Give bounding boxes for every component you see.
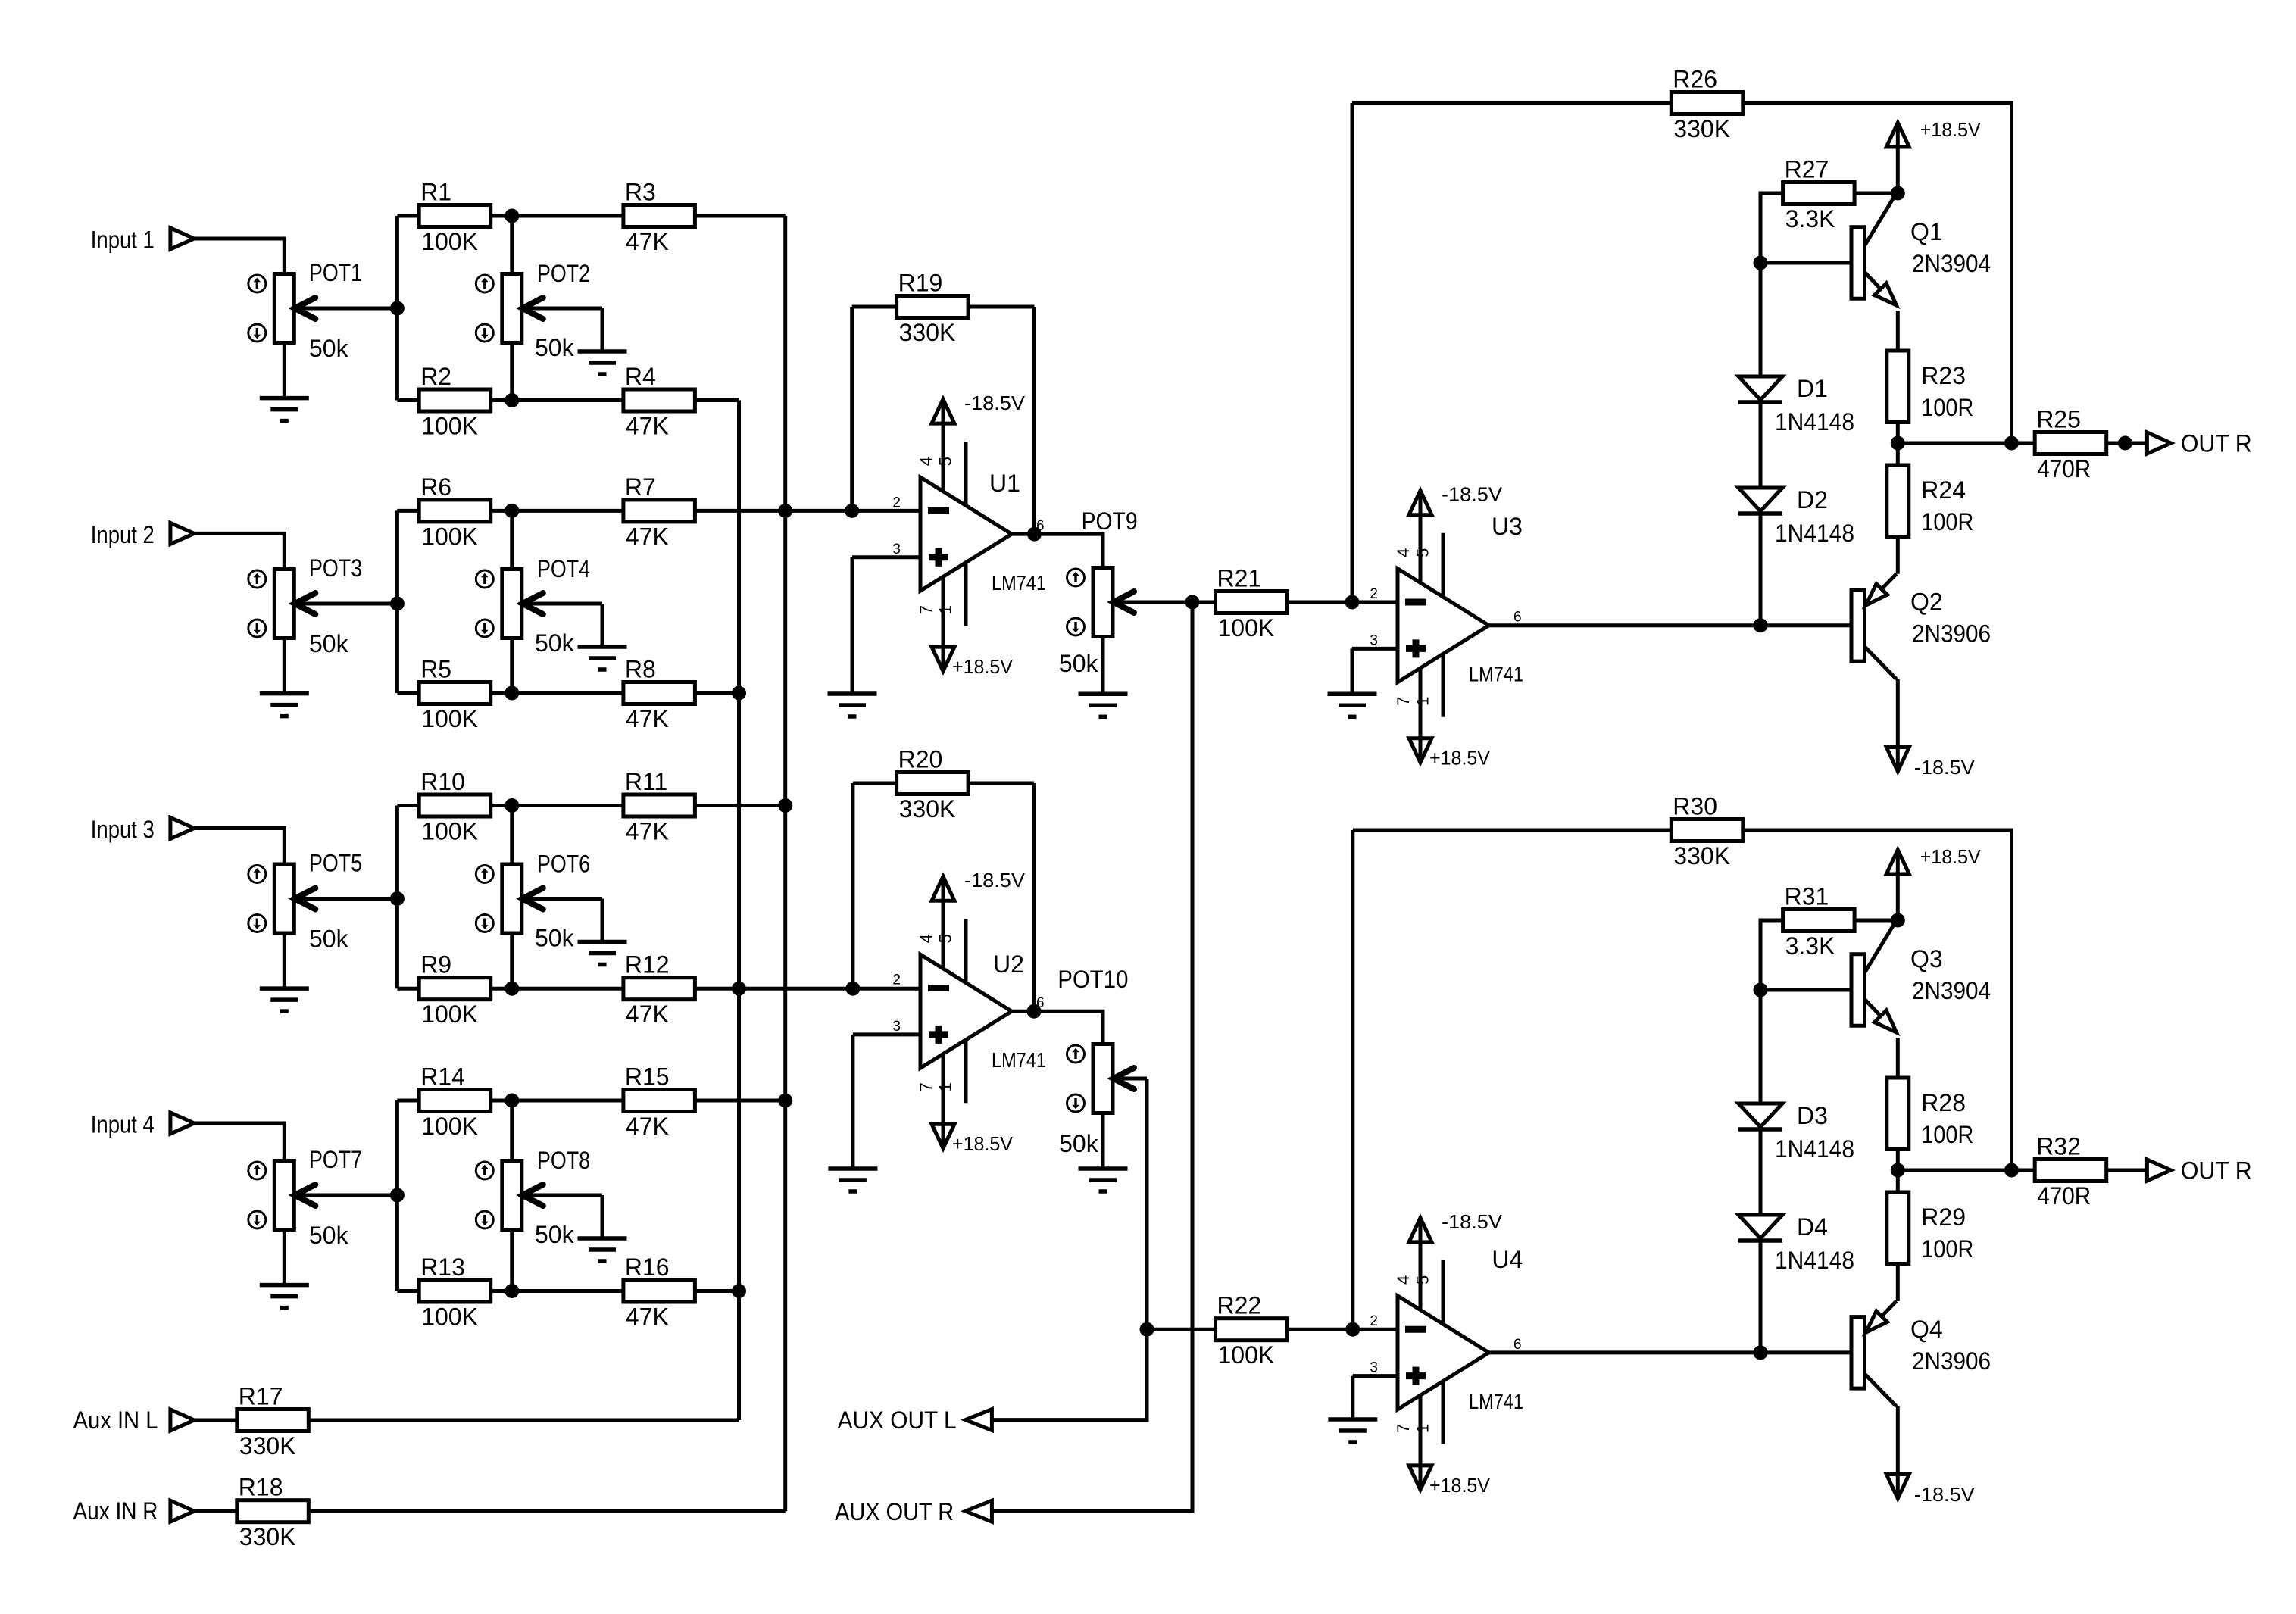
diode D4 1N4148	[1738, 1213, 1854, 1274]
wire Input 3 to POT5	[194, 829, 284, 865]
wire Q1 base	[1760, 261, 1851, 265]
svg-text:R8: R8	[625, 656, 656, 683]
svg-text:100K: 100K	[1218, 1341, 1275, 1369]
svg-text:R31: R31	[1785, 883, 1829, 910]
potentiometer POT7 50k	[248, 1146, 398, 1249]
svg-text:LM741: LM741	[992, 571, 1046, 595]
power +18.5V	[1886, 845, 1981, 874]
potentiometer POT10 50k	[1057, 966, 1147, 1157]
resistor R20 330K	[853, 746, 1034, 823]
svg-text:LM741: LM741	[1469, 663, 1523, 686]
wire POT6 column	[510, 806, 514, 865]
svg-text:2: 2	[1370, 1313, 1378, 1329]
svg-text:100K: 100K	[421, 818, 478, 845]
svg-text:330K: 330K	[899, 319, 956, 346]
svg-text:POT8: POT8	[537, 1147, 590, 1174]
resistor R4 47K	[512, 363, 739, 440]
wire POT9 bottom to ground	[1101, 637, 1105, 695]
svg-text:50k: 50k	[1059, 1130, 1099, 1157]
svg-text:7: 7	[1394, 697, 1413, 706]
wire Q1 emitter to R23	[1896, 311, 1900, 351]
potentiometer POT9 50k	[1059, 507, 1192, 677]
svg-text:50k: 50k	[535, 334, 575, 361]
svg-text:2N3906: 2N3906	[1912, 620, 1991, 648]
svg-text:POT4: POT4	[537, 555, 590, 582]
potentiometer POT3 50k	[248, 554, 398, 657]
svg-text:Q2: Q2	[1910, 588, 1943, 616]
svg-text:R25: R25	[2036, 406, 2081, 433]
svg-text:4: 4	[1394, 1275, 1413, 1285]
svg-text:+18.5V: +18.5V	[952, 655, 1014, 678]
wire POT4 wiper to ground	[601, 604, 604, 647]
wire POT4 column	[510, 510, 514, 569]
svg-text:100R: 100R	[1921, 394, 1973, 421]
resistor R13 100K	[397, 1253, 519, 1331]
potentiometer POT8 50k	[476, 1147, 602, 1248]
svg-text:330K: 330K	[239, 1432, 296, 1459]
svg-text:R32: R32	[2036, 1133, 2081, 1160]
wire R30 feedback top rail	[1351, 830, 1354, 1329]
wire POT8 column	[510, 1100, 514, 1161]
node bus B R11	[778, 798, 792, 813]
svg-text:1N4148: 1N4148	[1775, 408, 1854, 435]
input port Input 2	[91, 521, 194, 548]
node U2 pin2 feedback junction	[845, 982, 860, 996]
potentiometer POT6 50k	[476, 851, 602, 952]
svg-text:5: 5	[936, 457, 955, 466]
input port Aux IN L	[73, 1406, 195, 1434]
wire +18.5V to Q3 collector	[1896, 874, 1900, 920]
svg-text:-18.5V: -18.5V	[964, 869, 1026, 891]
resistor R15 47K	[512, 1063, 786, 1141]
wire Aux IN L row	[194, 1419, 237, 1422]
svg-text:R20: R20	[898, 746, 943, 773]
node Q3 base junction	[1754, 983, 1768, 997]
wire Input 4 to POT7	[194, 1123, 284, 1161]
svg-text:5: 5	[1414, 1275, 1432, 1285]
svg-text:2: 2	[892, 972, 901, 988]
svg-text:1N4148: 1N4148	[1775, 1135, 1854, 1163]
svg-text:-18.5V: -18.5V	[964, 392, 1026, 414]
svg-text:470R: 470R	[2037, 455, 2091, 482]
svg-text:R16: R16	[625, 1253, 670, 1281]
svg-text:3: 3	[1370, 632, 1378, 648]
svg-text:POT3: POT3	[309, 554, 362, 582]
power +18.5V	[1409, 1466, 1491, 1497]
svg-text:D4: D4	[1797, 1213, 1828, 1241]
wire U4 pin3 to ground	[1353, 1374, 1398, 1378]
wire Q4 collector to -18.5V	[1896, 1406, 1900, 1474]
resistor R12 47K	[512, 951, 739, 1029]
transistor Q1 2N3904	[1851, 193, 1991, 305]
svg-text:3: 3	[892, 1019, 901, 1035]
svg-text:AUX OUT R: AUX OUT R	[835, 1498, 954, 1525]
node R30 to output junction	[2004, 1163, 2019, 1178]
svg-text:+18.5V: +18.5V	[1429, 747, 1491, 770]
svg-text:LM741: LM741	[1469, 1390, 1523, 1413]
svg-text:LM741: LM741	[992, 1048, 1046, 1072]
svg-text:+18.5V: +18.5V	[1920, 118, 1982, 141]
input port Input 3	[91, 816, 194, 843]
transistor Q3 2N3904	[1851, 920, 1991, 1032]
resistor R14 100K	[397, 1063, 519, 1141]
wire U1 pin3 to ground	[852, 555, 920, 559]
wire output row to R32	[1898, 1169, 2035, 1172]
node R10 right junction	[504, 798, 519, 813]
svg-text:R21: R21	[1217, 565, 1262, 592]
svg-text:R27: R27	[1785, 156, 1829, 183]
resistor R2 100K	[397, 363, 519, 440]
node bus A R12 / U2 pin2	[732, 982, 746, 996]
wire +18.5V to Q1 collector	[1896, 147, 1900, 193]
node POT7 wiper junction	[390, 1188, 405, 1203]
svg-text:Aux IN R: Aux IN R	[73, 1497, 158, 1525]
output port OUT R	[2147, 1157, 2251, 1185]
svg-text:D1: D1	[1797, 375, 1828, 402]
wire Q3 base	[1760, 988, 1851, 992]
wire POT9 wiper row to U3	[1192, 601, 1216, 604]
svg-text:Aux IN L: Aux IN L	[73, 1406, 158, 1434]
wire POT10 wiper to R22 and AUX OUT L	[992, 1079, 1147, 1420]
svg-text:R12: R12	[625, 951, 670, 979]
svg-text:R13: R13	[420, 1253, 465, 1281]
svg-text:50k: 50k	[309, 1222, 349, 1249]
resistor R25 470R	[2035, 406, 2147, 483]
svg-text:100K: 100K	[421, 523, 478, 550]
svg-text:1N4148: 1N4148	[1775, 1247, 1854, 1274]
wire R31 row	[1760, 920, 1783, 990]
node diode chain to base row	[1754, 618, 1768, 632]
resistor R23 100R	[1887, 351, 1974, 423]
diode chain wire	[1759, 263, 1763, 376]
svg-text:4: 4	[917, 457, 936, 466]
svg-text:R17: R17	[239, 1383, 283, 1410]
svg-text:7: 7	[917, 1082, 936, 1091]
wire U1 inverting input row	[786, 509, 920, 513]
svg-text:2N3904: 2N3904	[1912, 977, 1991, 1004]
resistor R7 47K	[512, 473, 786, 551]
svg-text:U4: U4	[1492, 1246, 1523, 1273]
op-amp U1 LM741	[892, 423, 1046, 647]
ground	[1328, 1419, 1377, 1442]
wire left bus Input 3	[395, 806, 399, 989]
potentiometer POT1 50k	[248, 259, 398, 362]
wire U1 output to POT9	[1012, 534, 1104, 567]
wire Q2 collector to -18.5V	[1896, 679, 1900, 747]
wire U3 pin3 to ground	[1352, 647, 1398, 651]
wire U2 pin3 to ground	[853, 1032, 920, 1036]
node R14 right junction	[504, 1094, 519, 1108]
svg-text:330K: 330K	[1673, 842, 1730, 869]
wire R20 feedback loop	[851, 783, 854, 988]
resistor R16 47K	[512, 1253, 739, 1331]
svg-text:3.3K: 3.3K	[1785, 932, 1835, 960]
wire R24 to Q2 emitter	[1896, 539, 1900, 574]
svg-text:R11: R11	[625, 768, 667, 795]
resistor R5 100K	[397, 656, 519, 733]
svg-text:50k: 50k	[535, 1221, 575, 1248]
node U1 pin2 feedback junction	[845, 504, 859, 518]
svg-text:-18.5V: -18.5V	[1914, 756, 1976, 779]
resistor R26 330K	[1671, 66, 1743, 143]
svg-text:R29: R29	[1921, 1203, 1966, 1231]
node bus B R15	[778, 1094, 792, 1108]
resistor R24 100R	[1887, 465, 1974, 537]
resistor R10 100K	[397, 768, 519, 845]
svg-text:D2: D2	[1797, 486, 1828, 514]
svg-text:R2: R2	[420, 363, 451, 390]
svg-text:100K: 100K	[421, 705, 478, 732]
wire bus right-mix (R3 R7 R11 R15 to R18)	[783, 216, 787, 1511]
svg-text:R15: R15	[625, 1063, 670, 1091]
svg-text:R7: R7	[625, 473, 656, 501]
svg-text:47K: 47K	[626, 705, 669, 732]
input port Input 4	[91, 1110, 194, 1138]
resistor R29 100R	[1887, 1192, 1974, 1264]
ground	[578, 351, 627, 374]
svg-text:Input 2: Input 2	[91, 521, 155, 548]
power +18.5V	[932, 1124, 1014, 1155]
resistor R3 47K	[512, 179, 786, 256]
potentiometer POT4 50k	[476, 555, 602, 657]
resistor R31 3.3K	[1783, 883, 1855, 960]
svg-text:R30: R30	[1673, 793, 1717, 820]
power +18.5V	[1886, 118, 1981, 147]
output port OUT R	[2147, 430, 2251, 457]
svg-text:POT2: POT2	[537, 260, 590, 287]
wire POT5 bottom to ground	[283, 933, 286, 988]
svg-text:330K: 330K	[1673, 115, 1730, 142]
svg-text:R28: R28	[1921, 1089, 1966, 1116]
svg-text:R24: R24	[1921, 476, 1966, 504]
svg-text:50k: 50k	[1059, 650, 1099, 677]
svg-text:R4: R4	[625, 363, 656, 390]
diode D1 1N4148	[1738, 375, 1854, 435]
node R6 right junction	[504, 504, 519, 518]
svg-text:47K: 47K	[626, 1113, 669, 1140]
svg-text:7: 7	[917, 605, 936, 614]
svg-text:OUT R: OUT R	[2181, 430, 2252, 457]
ground	[260, 988, 309, 1011]
svg-text:3: 3	[892, 542, 901, 557]
wire POT1 bottom to ground	[283, 343, 286, 398]
svg-text:330K: 330K	[239, 1523, 296, 1550]
node bus B R7 / U1 pin2	[778, 504, 792, 518]
svg-text:1: 1	[1414, 697, 1432, 706]
power -18.5V	[1886, 748, 1975, 779]
resistor R22 100K	[1216, 1292, 1288, 1369]
node R2 right junction	[504, 393, 519, 407]
svg-text:47K: 47K	[626, 228, 669, 255]
node U4 pin2 feedback junction	[1345, 1322, 1360, 1337]
power -18.5V	[1886, 1475, 1975, 1506]
power -18.5V	[932, 869, 1026, 901]
svg-text:-18.5V: -18.5V	[1442, 483, 1503, 506]
diode chain wire	[1759, 990, 1763, 1104]
svg-text:AUX OUT L: AUX OUT L	[838, 1406, 957, 1434]
svg-text:100K: 100K	[421, 1001, 478, 1028]
op-amp U3 LM741	[1370, 513, 1523, 738]
svg-text:Q4: Q4	[1910, 1316, 1943, 1343]
svg-text:POT10: POT10	[1057, 966, 1128, 993]
node output terminal dot	[2118, 436, 2132, 451]
svg-text:R26: R26	[1673, 66, 1717, 93]
svg-text:U1: U1	[989, 470, 1020, 497]
svg-text:50k: 50k	[535, 629, 575, 657]
svg-text:1: 1	[936, 605, 955, 614]
wire AUX OUT R from POT9 junction	[992, 602, 1192, 1511]
svg-text:+18.5V: +18.5V	[952, 1132, 1014, 1155]
resistor R18 330K	[237, 1474, 309, 1551]
svg-text:2: 2	[892, 495, 901, 510]
wire Q1 collector to rail	[1896, 192, 1900, 195]
resistor R28 100R	[1887, 1078, 1974, 1150]
svg-text:1N4148: 1N4148	[1775, 520, 1854, 547]
svg-text:U3: U3	[1492, 513, 1523, 540]
node Q3 collector junction	[1891, 913, 1905, 928]
power -18.5V	[1409, 483, 1503, 515]
wire POT8 wiper to ground	[601, 1195, 604, 1238]
svg-text:Input 1: Input 1	[91, 226, 155, 253]
wire U2 inverting input row	[739, 987, 921, 991]
svg-text:47K: 47K	[626, 523, 669, 550]
wire left bus Input 1	[395, 216, 399, 401]
wire R23 to output node	[1896, 423, 1900, 466]
svg-text:470R: 470R	[2037, 1182, 2091, 1210]
ground	[578, 1238, 627, 1261]
power -18.5V	[932, 392, 1026, 423]
potentiometer POT5 50k	[248, 850, 398, 953]
node R22 junction	[1140, 1322, 1154, 1337]
svg-text:47K: 47K	[626, 818, 669, 845]
svg-text:100R: 100R	[1921, 508, 1973, 535]
svg-text:R3: R3	[625, 179, 656, 206]
wire POT7 bottom to ground	[283, 1230, 286, 1285]
svg-text:+18.5V: +18.5V	[1920, 845, 1982, 868]
svg-text:5: 5	[1414, 548, 1432, 557]
svg-text:POT5: POT5	[309, 850, 362, 877]
svg-text:100K: 100K	[1218, 614, 1275, 642]
wire R27 row	[1760, 193, 1783, 263]
node bus A R8	[732, 686, 746, 701]
node bus A R16	[732, 1284, 746, 1298]
wire R26 feedback top rail	[1351, 103, 1354, 602]
wire R29 to Q4 emitter	[1896, 1266, 1900, 1301]
svg-text:POT7: POT7	[309, 1146, 362, 1173]
svg-text:47K: 47K	[626, 413, 669, 440]
node diode chain to base row	[1754, 1345, 1768, 1360]
wire POT3 bottom to ground	[283, 638, 286, 694]
svg-text:Input 3: Input 3	[91, 816, 155, 843]
resistor R19 330K	[852, 270, 1035, 347]
svg-text:50k: 50k	[535, 925, 575, 952]
svg-text:100K: 100K	[421, 1303, 478, 1331]
node R5 right junction	[504, 686, 519, 701]
svg-text:R18: R18	[239, 1474, 283, 1501]
node R23/R24 output junction	[1891, 436, 1905, 451]
svg-text:2N3904: 2N3904	[1912, 250, 1991, 277]
svg-text:100R: 100R	[1921, 1235, 1973, 1263]
svg-text:100K: 100K	[421, 413, 478, 440]
svg-text:POT1: POT1	[309, 259, 362, 286]
node Q1 base junction	[1754, 256, 1768, 270]
wire U2 output to POT10	[1012, 1011, 1104, 1044]
node POT9 wiper / R21 / AUX OUT R junction	[1185, 595, 1200, 610]
resistor R9 100K	[397, 951, 519, 1029]
input port Input 1	[91, 226, 194, 253]
transistor Q4 2N3906	[1851, 1301, 1991, 1406]
node POT5 wiper junction	[390, 891, 405, 906]
svg-text:-18.5V: -18.5V	[1442, 1210, 1503, 1233]
svg-text:R19: R19	[898, 270, 943, 297]
wire bus left-mix (R4 R8 R12 R16 to R17)	[737, 401, 741, 1421]
svg-text:D3: D3	[1797, 1102, 1828, 1129]
svg-text:50k: 50k	[309, 926, 349, 953]
svg-text:Q1: Q1	[1910, 218, 1943, 245]
ground	[260, 694, 309, 716]
ground	[1328, 694, 1377, 716]
ground	[1079, 1169, 1128, 1191]
resistor R17 330K	[237, 1383, 309, 1460]
power -18.5V	[1409, 1210, 1503, 1242]
svg-text:50k: 50k	[309, 335, 349, 362]
svg-text:6: 6	[1513, 1337, 1522, 1353]
wire output row to R25	[1898, 442, 2035, 445]
ground	[578, 647, 627, 670]
svg-text:3.3K: 3.3K	[1785, 205, 1835, 233]
wire POT2 column	[510, 216, 514, 274]
potentiometer POT2 50k	[476, 260, 602, 361]
svg-text:-18.5V: -18.5V	[1914, 1483, 1976, 1506]
svg-text:100K: 100K	[421, 228, 478, 255]
svg-text:5: 5	[936, 934, 955, 943]
wire op-amp output to Q2 base	[1489, 623, 1852, 627]
svg-text:Q3: Q3	[1910, 945, 1943, 972]
node POT1 wiper junction	[390, 301, 405, 316]
node R1 right junction	[504, 209, 519, 223]
node POT3 wiper junction	[390, 597, 405, 611]
wire Q3 collector to rail	[1896, 919, 1900, 923]
wire op-amp output to Q4 base	[1489, 1350, 1852, 1354]
wire Input 2 to POT3	[194, 533, 284, 569]
svg-text:R5: R5	[420, 656, 451, 683]
power +18.5V	[932, 647, 1014, 678]
ground	[260, 1285, 309, 1308]
op-amp U2 LM741	[892, 901, 1046, 1124]
svg-text:R1: R1	[420, 179, 451, 206]
svg-text:OUT R: OUT R	[2181, 1157, 2252, 1185]
wire left bus Input 2	[395, 510, 399, 693]
svg-text:R14: R14	[420, 1063, 465, 1091]
resistor R27 3.3K	[1783, 156, 1855, 233]
svg-text:Input 4: Input 4	[91, 1110, 155, 1138]
node U3 pin2 feedback junction	[1345, 595, 1360, 610]
wire POT2 wiper to ground	[601, 308, 604, 351]
ground	[260, 398, 309, 421]
wire left bus Input 4	[395, 1100, 399, 1291]
node R28/R29 output junction	[1891, 1163, 1905, 1178]
diode D3 1N4148	[1738, 1102, 1854, 1163]
resistor R1 100K	[397, 179, 519, 256]
ground	[1079, 694, 1128, 716]
node R9 right junction	[504, 982, 519, 996]
node R13 right junction	[504, 1284, 519, 1298]
resistor R32 470R	[2035, 1133, 2147, 1210]
svg-text:POT9: POT9	[1082, 507, 1138, 535]
svg-text:1: 1	[1414, 1424, 1432, 1433]
svg-text:R23: R23	[1921, 362, 1966, 389]
svg-text:330K: 330K	[899, 795, 956, 823]
